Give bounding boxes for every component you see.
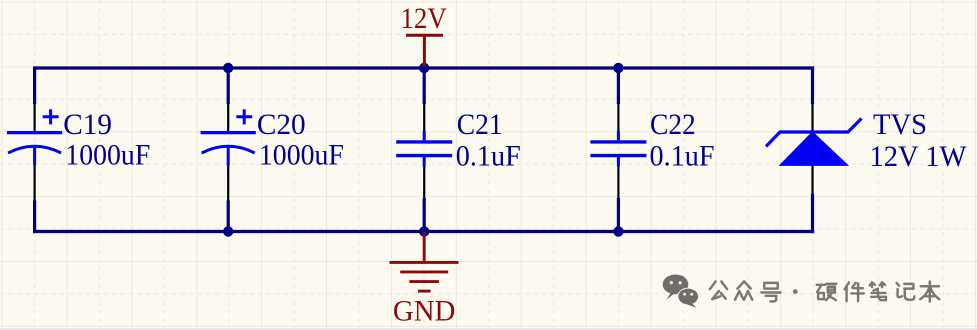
capacitor C21 symbol xyxy=(396,131,452,167)
junction bottom C20 xyxy=(223,226,233,236)
junction bottom C22 xyxy=(613,226,623,236)
power port 12V xyxy=(406,35,443,66)
ground GND symbol xyxy=(390,232,459,292)
svg-text:C19: C19 xyxy=(63,109,112,141)
capacitor C19 symbol xyxy=(7,109,62,165)
wire C19 branch top xyxy=(33,66,36,104)
capacitor C22 pins xyxy=(617,104,619,199)
svg-text:1000uF: 1000uF xyxy=(65,140,150,172)
svg-text:12V: 12V xyxy=(400,3,446,35)
capacitor C20 pins xyxy=(227,104,229,202)
wire C22 branch bottom xyxy=(617,198,620,232)
watermark middle dot xyxy=(793,289,798,294)
wire C19 branch bottom xyxy=(33,201,36,234)
bottom window edge xyxy=(0,328,977,330)
svg-text:TVS: TVS xyxy=(873,109,927,141)
capacitor C22 symbol xyxy=(590,131,646,167)
junction top C20 xyxy=(223,63,233,73)
diode D1 TVS cathode xyxy=(766,119,862,147)
wire C21 branch top xyxy=(423,68,426,104)
svg-text:0.1uF: 0.1uF xyxy=(456,141,521,173)
capacitor C20 symbol xyxy=(201,109,256,165)
wire TVS branch top xyxy=(811,66,814,104)
svg-text:0.1uF: 0.1uF xyxy=(650,141,715,173)
junction top C22 xyxy=(613,63,623,73)
wire C22 branch top xyxy=(617,68,620,104)
diode D1 TVS anode triangle xyxy=(780,132,848,165)
wire TVS branch bottom xyxy=(811,194,814,233)
wire C21 branch bottom xyxy=(423,198,426,232)
junction bottom GND/C21 xyxy=(419,226,429,236)
svg-text:1000uF: 1000uF xyxy=(259,140,344,172)
svg-text:C20: C20 xyxy=(257,109,306,141)
wire C20 branch top xyxy=(227,68,230,104)
capacitor C21 pins xyxy=(423,104,425,199)
junction top 12V/C21 xyxy=(419,63,429,73)
svg-text:C21: C21 xyxy=(457,109,503,141)
wire bottom bus xyxy=(33,230,814,233)
svg-text:12V 1W: 12V 1W xyxy=(870,141,967,173)
watermark wechat icon xyxy=(663,275,699,308)
capacitor C19 pins xyxy=(33,104,35,202)
wire C20 branch bottom xyxy=(227,201,230,232)
svg-text:C22: C22 xyxy=(650,109,696,141)
wire top bus xyxy=(33,66,814,69)
watermark text "公众号·硬件笔记本" (hand-drawn strokes) xyxy=(710,281,940,301)
svg-text:GND: GND xyxy=(393,295,456,327)
diode D1 TVS pins xyxy=(811,104,813,195)
